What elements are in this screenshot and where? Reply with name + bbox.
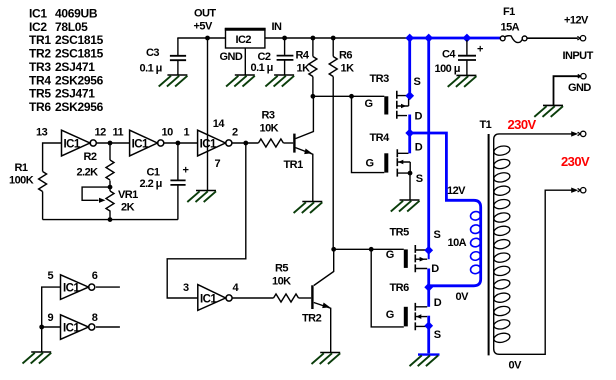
node TR5 source xyxy=(424,246,433,255)
transformer T1 core xyxy=(488,134,490,355)
arrow 230V output upper xyxy=(571,131,578,136)
junction rail to R4 xyxy=(311,36,316,41)
ground TR4 source xyxy=(391,200,420,212)
capacitor C3 top lead xyxy=(177,38,179,55)
wire gate E output stub xyxy=(96,286,120,288)
junction gate F input xyxy=(39,325,44,330)
fuse F1 xyxy=(500,36,527,43)
wire gate A output to gate B input xyxy=(97,142,130,144)
ground gates E/F input xyxy=(23,352,52,364)
svg-text:IC2: IC2 xyxy=(29,20,47,34)
ground C2 xyxy=(265,75,294,87)
ground IC1 pin7 xyxy=(187,191,216,203)
wire gate D output to R5 xyxy=(232,297,273,299)
wire R1 bottom lead xyxy=(42,192,44,220)
svg-text:2K: 2K xyxy=(121,202,135,214)
wire gate F output stub xyxy=(96,326,120,328)
svg-text:INPUT: INPUT xyxy=(563,50,594,62)
svg-text:S: S xyxy=(434,329,441,341)
ground TR2 emitter xyxy=(312,353,341,365)
node TR3 source xyxy=(405,91,414,100)
junction pin10 output to C1 xyxy=(176,141,181,146)
svg-text:IN: IN xyxy=(272,21,283,33)
svg-text:2.2K: 2.2K xyxy=(77,167,99,179)
capacitor C2 top lead xyxy=(284,38,286,55)
wire fuse to +12V terminal xyxy=(527,37,578,39)
junction VR1 bottom rail xyxy=(108,217,113,222)
transformer T1 secondary winding and output wires xyxy=(494,134,572,354)
svg-text:+: + xyxy=(477,44,483,56)
wire TR3/TR4 gate bracket xyxy=(352,96,385,172)
svg-text:IC1: IC1 xyxy=(29,6,47,20)
svg-text:100K: 100K xyxy=(9,175,34,187)
svg-text:2: 2 xyxy=(232,127,238,139)
svg-text:14: 14 xyxy=(213,118,226,130)
inverter IC1 gate E (5-6) xyxy=(61,275,89,300)
svg-text:100 μ: 100 μ xyxy=(435,63,460,75)
resistor R6 xyxy=(329,57,337,77)
svg-text:G: G xyxy=(386,309,394,321)
wire blue TR3 source drop xyxy=(408,38,411,94)
wire TR2 emitter xyxy=(314,303,331,353)
wire blue node to TR6 drain xyxy=(427,289,430,307)
wire TR5/TR6 gate bracket xyxy=(371,249,404,327)
junction R6 to TR2 collector xyxy=(331,247,336,252)
junction +5V rail to IC1 supply xyxy=(205,36,210,41)
svg-text:IC2: IC2 xyxy=(236,34,252,46)
svg-text:0.1 μ: 0.1 μ xyxy=(251,62,273,74)
junction rail to C2 xyxy=(282,36,287,41)
ground IC2 xyxy=(226,75,255,87)
wire blue TR6 body/source to ground xyxy=(427,316,430,354)
svg-text:R1: R1 xyxy=(15,162,28,174)
node 230V lower terminal xyxy=(578,188,586,193)
transformer T1 primary coil (blue) xyxy=(470,211,482,275)
resistor R6 top lead xyxy=(332,38,334,57)
svg-text:F1: F1 xyxy=(503,6,515,18)
svg-text:+12V: +12V xyxy=(564,15,589,27)
wire gate B output to gate C input xyxy=(164,142,198,144)
svg-text:+: + xyxy=(183,165,189,177)
svg-text:12: 12 xyxy=(95,127,107,139)
svg-text:R5: R5 xyxy=(275,263,288,275)
svg-text:8: 8 xyxy=(92,312,98,324)
wire blue +12V rail xyxy=(407,37,501,40)
ground INPUT GND xyxy=(534,105,563,117)
wire pin13 to gate A input and R1 top lead xyxy=(43,143,62,172)
wire VR1 wiper loop xyxy=(82,187,109,200)
wire VR1 bottom lead xyxy=(109,211,111,220)
op-amp gates: IC1 inverters xyxy=(61,130,233,339)
svg-text:S: S xyxy=(414,76,421,88)
wire blue TR3 drain to node xyxy=(408,115,411,134)
svg-text:0V: 0V xyxy=(456,291,470,303)
svg-text:D: D xyxy=(434,297,442,309)
wire TR1 emitter xyxy=(296,148,313,202)
svg-text:IC1: IC1 xyxy=(200,293,217,305)
resistor R4 top lead xyxy=(312,38,314,57)
svg-text:10A: 10A xyxy=(448,237,467,249)
svg-text:TR6: TR6 xyxy=(29,100,51,114)
node +12V rail / TR3 source branch xyxy=(405,34,414,43)
inverter IC1 gate C (1-2) xyxy=(198,130,226,156)
wire gate E input xyxy=(42,287,61,352)
svg-text:C1: C1 xyxy=(147,167,160,179)
svg-text:2SJ471: 2SJ471 xyxy=(55,87,95,101)
svg-text:D: D xyxy=(415,142,423,154)
VR1 wiper arrowhead xyxy=(99,198,106,203)
svg-text:15A: 15A xyxy=(501,22,520,34)
svg-text:9: 9 xyxy=(48,312,54,324)
svg-text:2SC1815: 2SC1815 xyxy=(55,47,104,61)
junction TR3/TR4 gate bracket xyxy=(349,94,354,99)
wire IC2 GND lead xyxy=(244,48,246,75)
svg-text:IC1: IC1 xyxy=(132,138,149,150)
wire pin2 node down to gate D input xyxy=(167,143,246,298)
transistor TR2 xyxy=(311,285,330,309)
svg-text:R6: R6 xyxy=(339,50,352,62)
capacitor C4 xyxy=(458,40,476,75)
capacitor C2 xyxy=(277,56,294,60)
svg-text:TR1: TR1 xyxy=(284,159,304,171)
junction rail to R6 xyxy=(331,36,336,41)
blue power wiring xyxy=(407,38,501,353)
svg-text:TR3: TR3 xyxy=(370,73,390,85)
svg-text:D: D xyxy=(431,263,439,275)
junction pin2 output branch xyxy=(243,141,248,146)
resistor R1 xyxy=(39,172,47,192)
wire gate C output to R3 xyxy=(232,142,258,144)
wire R2 to VR1 xyxy=(109,181,111,192)
junction R2/VR1 wiper xyxy=(108,185,113,190)
wire R6 bottom lead down to TR2 collector node xyxy=(332,77,334,250)
svg-text:2SK2956: 2SK2956 xyxy=(55,73,104,87)
svg-text:TR6: TR6 xyxy=(390,282,410,294)
svg-text:GND: GND xyxy=(568,82,591,94)
wire R4 bottom lead xyxy=(312,77,314,97)
svg-text:10K: 10K xyxy=(260,123,279,135)
capacitor C1 xyxy=(170,180,185,185)
resistor R3 xyxy=(258,139,283,147)
wire blue +12V down to TR5 source xyxy=(427,38,430,248)
svg-text:G: G xyxy=(366,158,374,170)
svg-text:4069UB: 4069UB xyxy=(55,6,98,20)
wire blue drain bus to transformer primary top xyxy=(410,133,481,286)
svg-text:G: G xyxy=(386,249,394,261)
svg-text:1: 1 xyxy=(184,127,190,139)
svg-text:TR5: TR5 xyxy=(29,87,51,101)
svg-text:S: S xyxy=(434,229,441,241)
node TR5/TR6 drain junction xyxy=(424,283,433,292)
junction TR5/TR6 gate bracket xyxy=(369,247,374,252)
junction TR4 source/body xyxy=(408,171,413,176)
wire blue node to TR4 drain xyxy=(408,133,411,153)
ground TR1 emitter xyxy=(294,202,323,214)
svg-text:C4: C4 xyxy=(442,49,456,61)
svg-text:R2: R2 xyxy=(84,151,97,163)
svg-text:TR3: TR3 xyxy=(29,60,51,74)
node +12V rail / TR5 source branch xyxy=(424,34,433,43)
svg-text:4: 4 xyxy=(233,282,240,294)
svg-text:IC1: IC1 xyxy=(200,138,217,150)
svg-text:TR2: TR2 xyxy=(29,47,51,61)
svg-text:1K: 1K xyxy=(341,63,355,75)
parts list xyxy=(29,6,104,114)
wire +5V supply vertical through gate C (pin14/pin7) xyxy=(207,38,209,191)
svg-text:D: D xyxy=(415,111,423,123)
node +12V rail / C4 branch xyxy=(463,34,472,43)
resistor R4 xyxy=(309,57,317,77)
node GND input terminal xyxy=(578,74,586,79)
inverter IC1 gate B (11-10) xyxy=(130,130,158,156)
inverter IC1 gate D (3-4) xyxy=(198,285,226,311)
inverter IC1 gate A (13-12) xyxy=(62,130,90,156)
svg-text:T1: T1 xyxy=(480,119,492,131)
transistor TR3 (2SJ471) xyxy=(384,91,408,119)
svg-text:R4: R4 xyxy=(296,50,310,62)
ground C4 xyxy=(448,75,477,87)
wire blue TR5 drain to node xyxy=(427,269,430,286)
svg-text:TR2: TR2 xyxy=(302,313,322,325)
node TR3/TR4 drain junction xyxy=(405,129,414,138)
svg-text:0V: 0V xyxy=(509,360,523,372)
wire oscillator bottom rail xyxy=(43,219,178,221)
regulator IC2 box xyxy=(225,29,266,49)
node +12V input terminal xyxy=(577,36,585,41)
svg-text:+5V: +5V xyxy=(194,21,213,33)
svg-text:1K: 1K xyxy=(297,63,311,75)
ground TR6 source (blue bar) xyxy=(410,355,440,367)
svg-text:G: G xyxy=(365,98,373,110)
svg-text:230V: 230V xyxy=(561,154,590,169)
wire TR5/TR6 gate drive xyxy=(334,248,404,250)
wire blue TR5 body tie xyxy=(428,253,430,260)
svg-text:IC1: IC1 xyxy=(63,282,80,294)
potentiometer VR1 xyxy=(106,191,114,211)
svg-text:2SJ471: 2SJ471 xyxy=(55,60,95,74)
svg-text:GND: GND xyxy=(220,51,243,63)
svg-text:IC1: IC1 xyxy=(64,138,81,150)
node 230V upper terminal xyxy=(578,131,586,136)
transistor TR1 xyxy=(293,134,312,155)
wire gate F input xyxy=(42,326,61,328)
wire TR3/TR4 gate drive xyxy=(313,95,384,97)
arrow 230V output lower xyxy=(571,188,578,193)
svg-text:5: 5 xyxy=(48,270,54,282)
svg-text:10: 10 xyxy=(162,127,174,139)
inverter IC1 gate F (9-8) xyxy=(61,315,89,340)
node TR6 source xyxy=(424,321,433,330)
resistor R5 xyxy=(274,294,299,302)
ground C3 xyxy=(159,75,188,87)
wire C1 top lead xyxy=(177,143,179,180)
svg-text:S: S xyxy=(416,173,423,185)
transistor TR5 (2SJ471) xyxy=(404,245,427,272)
junction R4 to TR1 collector xyxy=(311,94,316,99)
svg-text:78L05: 78L05 xyxy=(55,20,88,34)
capacitor C3 xyxy=(170,56,186,60)
svg-text:7: 7 xyxy=(215,158,221,170)
wire TR2 collector xyxy=(314,249,334,285)
wire input GND terminal to ground xyxy=(554,76,580,105)
wire +12V rail left black segment xyxy=(177,37,408,39)
svg-text:R3: R3 xyxy=(262,110,275,122)
svg-text:TR5: TR5 xyxy=(390,227,410,239)
svg-text:230V: 230V xyxy=(508,117,537,132)
svg-text:TR1: TR1 xyxy=(29,33,51,47)
svg-text:C3: C3 xyxy=(146,47,159,59)
svg-text:IC1: IC1 xyxy=(63,322,80,334)
transistor TR6 (2SK2956) xyxy=(404,303,427,330)
wire R2 top lead xyxy=(109,143,111,160)
wire TR4 source to ground xyxy=(409,173,411,200)
svg-text:6: 6 xyxy=(92,270,98,282)
transistor TR4 (2SK2956) xyxy=(384,149,410,200)
svg-text:2SC1815: 2SC1815 xyxy=(55,33,104,47)
svg-text:3: 3 xyxy=(183,282,189,294)
svg-text:2.2 μ: 2.2 μ xyxy=(140,178,162,190)
svg-text:OUT: OUT xyxy=(194,8,216,20)
svg-text:2SK2956: 2SK2956 xyxy=(55,100,104,114)
wire C3 to ground xyxy=(177,61,179,75)
svg-text:TR4: TR4 xyxy=(370,132,391,144)
svg-text:TR4: TR4 xyxy=(29,73,51,87)
svg-text:VR1: VR1 xyxy=(118,189,138,201)
wire R5 to TR2 base xyxy=(299,297,312,299)
junction pin12 output to R2 xyxy=(108,141,113,146)
svg-text:13: 13 xyxy=(36,127,48,139)
svg-text:0.1 μ: 0.1 μ xyxy=(140,63,162,75)
svg-text:11: 11 xyxy=(113,127,124,139)
wire TR1 collector xyxy=(296,96,314,138)
svg-text:12V: 12V xyxy=(447,185,466,197)
svg-text:10K: 10K xyxy=(272,276,291,288)
wire C2 to ground xyxy=(284,61,286,76)
resistor R2 xyxy=(106,160,114,180)
wire R3 to TR1 base xyxy=(283,142,293,144)
capacitor C1 bottom lead xyxy=(177,185,179,219)
